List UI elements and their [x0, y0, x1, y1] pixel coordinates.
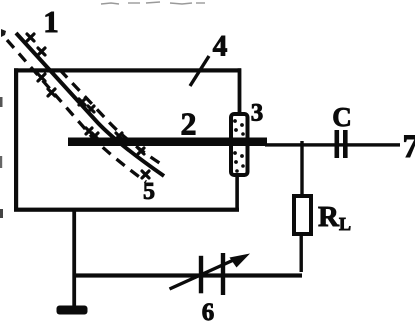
svg-text:6: 6	[202, 299, 215, 322]
wire envelope bottom to ground	[72, 210, 76, 307]
leader line for label 4	[190, 56, 209, 86]
variable capacitor 6 left plate	[199, 256, 203, 293]
svg-text:2: 2	[181, 106, 197, 142]
feedthrough seal 3 stipple dots	[233, 119, 245, 173]
beam trajectory solid line 1	[16, 33, 164, 176]
variable capacitor 6 right plate	[221, 253, 225, 295]
node junction to RL	[300, 141, 303, 195]
scan speck left margin C	[0, 156, 2, 168]
svg-text:1: 1	[43, 4, 59, 39]
beam envelope dashed right	[60, 70, 161, 164]
svg-text:3: 3	[251, 100, 264, 127]
svg-text:C: C	[332, 102, 352, 132]
scan speck left margin B	[0, 97, 3, 107]
wire rod to node	[265, 143, 400, 146]
variable capacitor 6 arrow	[170, 254, 251, 290]
tube envelope top wall	[14, 68, 241, 72]
wire RL bottom down	[300, 234, 303, 272]
ionization x marks	[27, 34, 149, 178]
tube envelope bottom wall	[14, 208, 239, 212]
svg-text:5: 5	[143, 179, 155, 205]
tube envelope left wall	[14, 68, 18, 211]
scan speck left margin A	[1, 29, 6, 37]
scan smudge top	[101, 2, 205, 4]
capacitor C left plate	[335, 130, 340, 158]
feedthrough seal 3 body	[231, 114, 248, 175]
target electrode 2 thick rod	[68, 138, 267, 147]
tube envelope right wall upper segment	[238, 68, 242, 113]
resistor RL body	[294, 196, 311, 234]
svg-text:4: 4	[213, 31, 228, 63]
scan speck left margin D	[0, 209, 3, 218]
capacitor C right plate	[343, 130, 348, 158]
svg-text:7: 7	[403, 129, 415, 165]
svg-text:RL: RL	[318, 201, 351, 234]
beam envelope dashed left	[7, 40, 146, 182]
wire bottom horizontal run	[73, 273, 302, 277]
wire seal-3 bottom to envelope bottom wall	[235, 175, 239, 210]
ground bar	[57, 306, 88, 315]
